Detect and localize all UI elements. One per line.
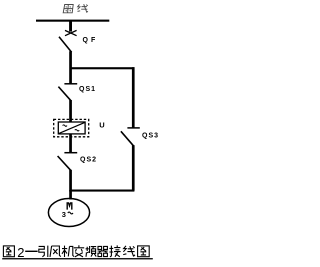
wire: trunk inverter to QS2: [69, 134, 72, 153]
inverter diagonal divider: [59, 122, 85, 133]
svg-text:QS3: QS3: [142, 133, 159, 140]
wire: QS3 blade to lower junction: [132, 145, 135, 191]
svg-text:QS1: QS1: [79, 86, 96, 93]
inverter AC mark top-left: [63, 125, 67, 127]
wire: branch horizontal to QS3: [70, 67, 134, 69]
caption char 风: [50, 246, 61, 257]
inverter U inner box: [58, 122, 85, 134]
caption dash —: [25, 250, 37, 252]
wire: junction to motor: [69, 190, 72, 200]
breaker QF blade: [59, 37, 72, 52]
caption char 引: [39, 246, 48, 257]
disconnector QS3 blade: [121, 131, 134, 146]
caption char 接: [109, 245, 120, 257]
caption char 图 (second): [138, 246, 150, 257]
svg-text:QS2: QS2: [80, 156, 97, 163]
wire: right branch vertical to QS3: [132, 67, 135, 128]
svg-text:QF: QF: [83, 37, 99, 44]
caption underline: [2, 258, 153, 259]
wire: trunk QS2 to lower junction: [69, 170, 72, 192]
caption char 器: [98, 246, 108, 256]
caption char 线: [123, 246, 135, 257]
disconnector QS1 fixed contact tick: [64, 83, 77, 85]
wire: lower junction horizontal: [70, 190, 134, 192]
caption char 变: [74, 245, 84, 257]
disconnector QS1 blade: [58, 87, 71, 101]
inverter AC mark bottom-right: [75, 129, 79, 131]
wire: busbar: [36, 20, 109, 22]
wire: QF stub from busbar: [69, 21, 72, 32]
disconnector QS2 fixed contact tick: [64, 152, 77, 154]
inverter U dashed enclosure: [54, 119, 89, 136]
wire: trunk below QF: [69, 51, 72, 84]
svg-text:U: U: [99, 121, 104, 130]
caption char 频: [86, 246, 97, 257]
motor M circle: [48, 199, 89, 227]
node: busbar label 母线: [63, 4, 88, 13]
breaker QF contact X mark: [65, 30, 77, 35]
wire: trunk QS1 to inverter: [69, 100, 72, 123]
svg-text:3: 3: [62, 210, 66, 219]
caption char 机: [62, 246, 74, 257]
disconnector QS3 fixed contact tick: [127, 127, 139, 129]
motor letter M: [67, 203, 72, 210]
svg-text:2: 2: [17, 245, 24, 260]
disconnector QS2 blade: [58, 156, 71, 171]
caption char 图: [3, 246, 14, 257]
